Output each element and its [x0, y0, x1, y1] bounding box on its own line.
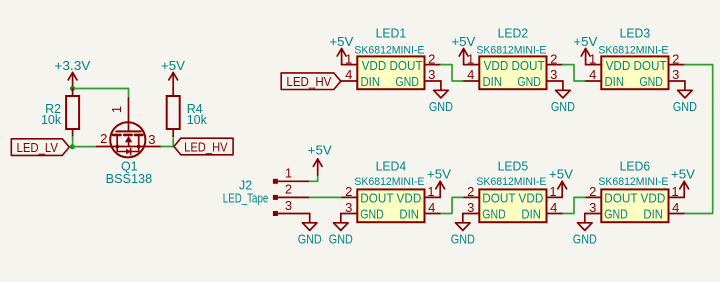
LED5 pin number 1	[549, 184, 556, 199]
svg-text:DOUT VDD: DOUT VDD	[604, 191, 665, 206]
wire R4 bottom to LED_HV node	[172, 139, 174, 147]
connector J2 LED_Tape	[273, 179, 310, 216]
LED3 pin number 1	[589, 51, 596, 66]
J2 value LED_Tape	[223, 192, 269, 206]
LED1 pin number 2	[428, 51, 435, 66]
wire LED4-LED5 data jog	[441, 197, 463, 213]
svg-text:+5V: +5V	[451, 35, 476, 49]
LED5 value SK6812MINI-E	[476, 176, 546, 188]
svg-text:+3.3V: +3.3V	[54, 59, 91, 73]
svg-text:1: 1	[671, 184, 678, 199]
svg-text:10k: 10k	[41, 113, 62, 127]
power symbol GND (GND below LED2)	[551, 81, 575, 114]
LED1 pin number 3	[428, 67, 435, 82]
svg-text:1: 1	[589, 51, 596, 66]
LED5 pin number 3	[467, 200, 474, 215]
svg-text:+5V: +5V	[671, 168, 696, 182]
svg-text:VDD DOUT: VDD DOUT	[484, 58, 545, 73]
svg-text:3: 3	[148, 132, 155, 147]
LED6 reference	[620, 159, 651, 173]
Q1 pin number 3	[148, 132, 155, 147]
LED6 value SK6812MINI-E	[598, 176, 668, 188]
svg-text:+5V: +5V	[573, 35, 598, 49]
svg-text:2: 2	[672, 51, 679, 66]
svg-text:2: 2	[550, 51, 557, 66]
LED6 pin number 2	[589, 184, 596, 199]
svg-text:DOUT VDD: DOUT VDD	[360, 191, 421, 206]
svg-text:4: 4	[345, 67, 352, 82]
transistor Q1 BSS138	[97, 98, 162, 158]
power symbol +5V at J2	[308, 143, 333, 175]
LED5 pin number 2	[467, 184, 474, 199]
Q1 reference	[121, 160, 138, 174]
svg-text:LED_HV: LED_HV	[184, 139, 228, 154]
resistor R2	[41, 89, 79, 137]
svg-text:1: 1	[427, 184, 434, 199]
svg-text:GND: GND	[573, 231, 597, 246]
svg-text:GND: GND	[551, 99, 575, 114]
svg-text:2: 2	[100, 131, 107, 146]
svg-text:2: 2	[589, 184, 596, 199]
svg-text:GND: GND	[604, 207, 628, 222]
svg-text:GND: GND	[329, 231, 353, 246]
wire LED5-LED6 data jog	[563, 197, 585, 213]
svg-text:3: 3	[550, 67, 557, 82]
LED1 pin number 4	[345, 67, 352, 82]
LED5 reference	[498, 159, 529, 173]
svg-text:4: 4	[672, 200, 679, 215]
LED1 value SK6812MINI-E	[354, 44, 424, 56]
LED4 pin number 1	[427, 184, 434, 199]
svg-text:LED5: LED5	[498, 159, 529, 173]
LED1 reference	[376, 27, 407, 41]
LED4 pin number 3	[345, 200, 352, 215]
svg-text:+5V: +5V	[549, 168, 574, 182]
svg-text:LED3: LED3	[620, 27, 651, 41]
svg-text:4: 4	[428, 200, 435, 215]
svg-text:SK6812MINI-E: SK6812MINI-E	[598, 176, 668, 188]
LED3 reference	[620, 27, 651, 41]
svg-text:DIN: DIN	[399, 207, 419, 222]
svg-text:DIN: DIN	[521, 207, 541, 222]
svg-text:1: 1	[109, 106, 124, 113]
LED LED5 SK6812MINI-E	[463, 189, 563, 222]
svg-text:2: 2	[467, 184, 474, 199]
wire LED3 DOUT to LED6 DIN (around right edge)	[685, 65, 713, 214]
svg-text:LED_Tape: LED_Tape	[223, 192, 269, 206]
LED LED4 SK6812MINI-E	[341, 189, 441, 222]
svg-text:10k: 10k	[187, 113, 208, 127]
svg-text:3: 3	[285, 198, 292, 213]
LED6 pin number 3	[589, 200, 596, 215]
svg-text:1: 1	[467, 51, 474, 66]
J2 pin number 1	[285, 166, 292, 181]
power symbol GND (GND below LED6)	[573, 214, 597, 247]
svg-text:3: 3	[672, 67, 679, 82]
svg-text:+5V: +5V	[329, 35, 354, 49]
LED2 reference	[498, 27, 529, 41]
svg-text:SK6812MINI-E: SK6812MINI-E	[598, 44, 668, 56]
LED1 pin number 1	[345, 51, 352, 66]
svg-text:GND: GND	[360, 207, 384, 222]
power symbol GND (GND below LED4)	[329, 214, 353, 247]
power symbol +5V at LED4	[427, 168, 452, 198]
svg-text:2: 2	[345, 184, 352, 199]
power symbol +5V at LED1	[329, 35, 354, 65]
power symbol GND (GND below LED3)	[673, 81, 697, 114]
svg-text:4: 4	[589, 67, 596, 82]
svg-text:LED6: LED6	[620, 159, 651, 173]
global label LED_HV (left)	[174, 138, 233, 155]
LED2 value SK6812MINI-E	[476, 44, 546, 56]
LED4 reference	[376, 159, 407, 173]
svg-text:1: 1	[285, 166, 292, 181]
svg-text:VDD DOUT: VDD DOUT	[362, 58, 423, 73]
svg-text:GND: GND	[395, 74, 419, 89]
power symbol +3.3V (PWR)	[54, 59, 91, 89]
svg-text:2: 2	[285, 182, 292, 197]
svg-text:LED_LV: LED_LV	[17, 140, 59, 155]
wire Q1 gate drop (vertical)	[128, 89, 130, 98]
svg-text:+5V: +5V	[427, 168, 452, 182]
svg-text:GND: GND	[517, 74, 541, 89]
LED2 pin number 4	[467, 67, 474, 82]
wire Q1 pin 3 to LED_HV node	[161, 146, 174, 148]
power symbol GND (GND below LED5)	[451, 214, 475, 247]
power symbol +5V at LED6	[671, 168, 696, 198]
svg-text:4: 4	[467, 67, 474, 82]
global label LED_LV	[11, 139, 69, 156]
LED LED1 SK6812MINI-E	[341, 56, 441, 89]
wire J2 pin1 to +5V	[310, 175, 318, 181]
power symbol +5V at LED5	[549, 168, 574, 198]
LED3 pin number 3	[672, 67, 679, 82]
LED3 pin number 4	[589, 67, 596, 82]
junction node LED_LV	[70, 144, 75, 149]
svg-text:3: 3	[589, 200, 596, 215]
svg-text:4: 4	[550, 200, 557, 215]
svg-text:GND: GND	[482, 207, 506, 222]
wire J2 pin2 to LED4 DOUT	[310, 196, 341, 198]
svg-text:LED1: LED1	[376, 27, 407, 41]
svg-text:1: 1	[549, 184, 556, 199]
svg-text:DIN: DIN	[483, 74, 503, 89]
svg-text:DOUT VDD: DOUT VDD	[482, 191, 543, 206]
svg-text:SK6812MINI-E: SK6812MINI-E	[354, 44, 424, 56]
Q1 value BSS138	[106, 172, 153, 186]
Q1 pin number 1	[109, 106, 124, 113]
LED LED3 SK6812MINI-E	[585, 56, 685, 89]
svg-text:3: 3	[428, 67, 435, 82]
svg-text:3: 3	[467, 200, 474, 215]
svg-text:SK6812MINI-E: SK6812MINI-E	[476, 44, 546, 56]
svg-text:GND: GND	[451, 231, 475, 246]
J2 pin number 3	[285, 198, 292, 213]
svg-text:+5V: +5V	[308, 143, 333, 157]
wire LED_LV node to Q1 pin 2	[72, 146, 96, 148]
LED LED2 SK6812MINI-E	[463, 56, 563, 89]
wire LED1-LED2 data jog	[441, 65, 463, 81]
power symbol +5V (left, above R4)	[161, 59, 186, 89]
resistor R4	[167, 89, 208, 137]
svg-text:DIN: DIN	[643, 207, 663, 222]
svg-text:1: 1	[345, 51, 352, 66]
Q1 pin number 2	[100, 131, 107, 146]
J2 reference	[239, 179, 252, 193]
power symbol +5V at LED3	[573, 35, 598, 65]
power symbol GND (GND below LED1)	[429, 81, 453, 114]
LED4 pin number 4	[428, 200, 435, 215]
svg-text:GND: GND	[429, 99, 453, 114]
svg-text:GND: GND	[673, 99, 697, 114]
wire +3.3V rail to Q1 gate (horizontal)	[73, 88, 129, 90]
LED2 pin number 3	[550, 67, 557, 82]
wire LED2-LED3 data jog	[563, 65, 585, 81]
svg-text:LED_HV: LED_HV	[286, 74, 331, 89]
svg-text:+5V: +5V	[161, 59, 186, 73]
svg-text:VDD DOUT: VDD DOUT	[606, 58, 667, 73]
J2 pin number 2	[285, 182, 292, 197]
LED4 pin number 2	[345, 184, 352, 199]
LED4 value SK6812MINI-E	[354, 176, 424, 188]
junction node at +3.3V rail	[70, 86, 75, 91]
power symbol +5V at LED2	[451, 35, 476, 65]
svg-text:BSS138: BSS138	[106, 172, 153, 186]
svg-text:DIN: DIN	[605, 74, 625, 89]
LED6 pin number 1	[671, 184, 678, 199]
svg-text:LED4: LED4	[376, 159, 407, 173]
svg-text:2: 2	[428, 51, 435, 66]
svg-text:SK6812MINI-E: SK6812MINI-E	[476, 176, 546, 188]
svg-text:LED2: LED2	[498, 27, 529, 41]
svg-text:SK6812MINI-E: SK6812MINI-E	[354, 176, 424, 188]
LED LED6 SK6812MINI-E	[585, 189, 685, 222]
svg-text:DIN: DIN	[361, 74, 381, 89]
LED6 pin number 4	[672, 200, 679, 215]
LED3 pin number 2	[672, 51, 679, 66]
wire R2 bottom to LED_LV node	[72, 137, 74, 147]
LED2 pin number 2	[550, 51, 557, 66]
svg-text:GND: GND	[298, 231, 322, 246]
svg-text:3: 3	[345, 200, 352, 215]
svg-text:GND: GND	[639, 74, 663, 89]
power symbol GND (GND at J2 pin3)	[298, 214, 322, 247]
LED3 value SK6812MINI-E	[598, 44, 668, 56]
LED2 pin number 1	[467, 51, 474, 66]
global label LED_HV (feeds LED1)	[281, 73, 341, 90]
LED5 pin number 4	[550, 200, 557, 215]
